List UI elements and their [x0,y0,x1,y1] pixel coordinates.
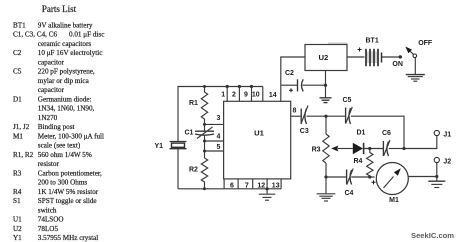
pin 14 label [269,92,277,99]
pin 9 stub [244,87,251,102]
resistor R1 [189,88,208,125]
wire: top rail from left vertical to pin stubs [178,87,263,142]
svg-text:OFF: OFF [418,40,433,47]
wire: left vertical below Y1 and bottom rail to pin 6 [177,149,179,189]
wire: R3 bottom lead to ground [324,163,327,193]
svg-text:6: 6 [230,182,234,189]
svg-text:C1: C1 [185,130,194,137]
scan artifact smudge [328,43,348,44]
svg-text:3: 3 [217,115,221,122]
svg-text:1N34, 1N60, 1N90,: 1N34, 1N60, 1N90, [38,105,95,113]
wire: bottom ground rail under U1 pins [178,188,281,190]
ground (R3) [317,194,336,201]
junction dot bottom rail [203,187,206,190]
svg-text:10: 10 [252,92,260,99]
wire: U2 ground stub [324,71,327,98]
pin 12 stub [253,179,266,189]
capacitor C3 [300,106,309,136]
wire: pins ground stub [266,187,269,194]
wire: D1 cathode to C6 [364,147,383,150]
svg-text:4: 4 [217,133,221,140]
svg-text:BT19V alkaline battery: BT19V alkaline battery [13,21,93,29]
svg-text:C5: C5 [343,97,352,104]
IC U2 (78L05) [305,45,347,71]
capacitor C4 [345,169,354,198]
ground (J2) [428,181,445,187]
svg-text:capacitor: capacitor [38,58,65,66]
pin 13 stub [267,179,281,189]
wire: C3 to C5 node [307,115,346,118]
svg-text:R3: R3 [312,147,321,154]
svg-text:ON: ON [392,61,403,68]
switch S1 [392,40,433,68]
parts list entries [13,21,104,242]
svg-text:SeekIC.com: SeekIC.com [411,231,454,240]
svg-text:12: 12 [257,182,265,189]
svg-text:9: 9 [244,92,248,99]
wire: pin 8 stub [291,107,301,116]
svg-text:1: 1 [221,92,225,99]
svg-text:R4: R4 [354,158,363,165]
wire: C1 leads on vertical [204,124,206,158]
svg-text:C6: C6 [382,130,391,137]
capacitor C2 electrolytic [282,70,326,92]
ground (U1 pins) [259,194,275,200]
ground (U2) [320,98,332,103]
svg-text:Y1: Y1 [155,143,164,150]
capacitor C1 [185,127,215,139]
junction dots on top rail [203,85,253,88]
capacitor C6 [382,130,391,156]
resistor R4 [354,149,374,178]
svg-text:200 to 300 Ohms: 200 to 300 Ohms [38,179,88,187]
meter M1 [371,163,408,205]
svg-text:7: 7 [245,182,249,189]
capacitor C5 [343,97,353,124]
svg-text:U2: U2 [319,53,329,62]
svg-text:2: 2 [232,92,236,99]
potentiometer R3 [312,134,353,163]
svg-text:5: 5 [217,144,221,151]
svg-text:J1: J1 [443,131,451,138]
svg-text:scale (see text): scale (see text) [38,142,81,150]
pin 1 stub [221,87,227,102]
binding post J1 [434,130,451,138]
svg-text:mylar or dip mica: mylar or dip mica [38,77,90,85]
svg-text:R1: R1 [189,100,198,107]
node: pin 3 stub [203,115,224,126]
svg-text:C4: C4 [345,190,354,197]
resistor R2 [189,158,208,189]
wire: meter to J2 node [408,175,438,178]
svg-text:8: 8 [293,107,297,114]
ground (switch) [406,75,425,82]
svg-text:R2: R2 [189,167,198,174]
parts list title [42,4,77,14]
svg-text:BT1: BT1 [366,38,379,45]
wire: battery to switch terminal [382,55,402,58]
IC U1 (74LS00) [224,101,291,179]
svg-text:J1, J2Binding post: J1, J2Binding post [13,123,75,131]
pin 2 stub [232,87,239,102]
pin 6 stub [224,179,234,189]
wire: U2 output to battery [347,56,365,58]
wire: C6 to riser node [389,147,406,150]
wire: pin 14 riser to U2 [281,57,305,101]
svg-text:M1: M1 [389,197,399,204]
svg-text:14: 14 [269,92,277,99]
pin 7 stub [238,179,249,189]
svg-text:1N270: 1N270 [38,114,58,122]
svg-text:capacitor: capacitor [38,86,65,94]
svg-text:13: 13 [272,182,280,189]
wire: J1 to C6 node [404,136,437,149]
node: pin 5 stub [203,144,224,153]
svg-text:C3: C3 [300,128,309,135]
wire: switch to ground [414,58,416,75]
wire: R3 top lead from C3/C5 node [325,116,327,134]
wire: J2 to ground node [436,163,438,181]
watermark SeekIC.com [411,231,454,240]
crystal Y1 [155,142,187,151]
node: pin 4 stub [203,133,224,142]
svg-text:U174LSOO: U174LSOO [13,216,64,224]
svg-text:U1: U1 [254,129,265,138]
svg-text:resistor: resistor [38,160,60,168]
pin 10 stub [252,87,263,102]
svg-text:C2: C2 [285,70,294,77]
wire: R3 node through C4 to meter [326,175,375,178]
diode D1 [353,130,366,155]
binding post J2 [434,157,451,165]
svg-text:R1, R2560 ohm 1/4W 5%: R1, R2560 ohm 1/4W 5% [13,151,92,159]
wire: C5 to right riser down to C6 node [351,116,404,148]
svg-text:D1: D1 [357,130,366,137]
svg-text:switch: switch [38,206,57,214]
svg-text:Parts List: Parts List [42,4,77,14]
battery BT1 [358,38,382,67]
svg-text:J2: J2 [443,158,451,165]
svg-text:ceramic capacitors: ceramic capacitors [38,40,92,48]
